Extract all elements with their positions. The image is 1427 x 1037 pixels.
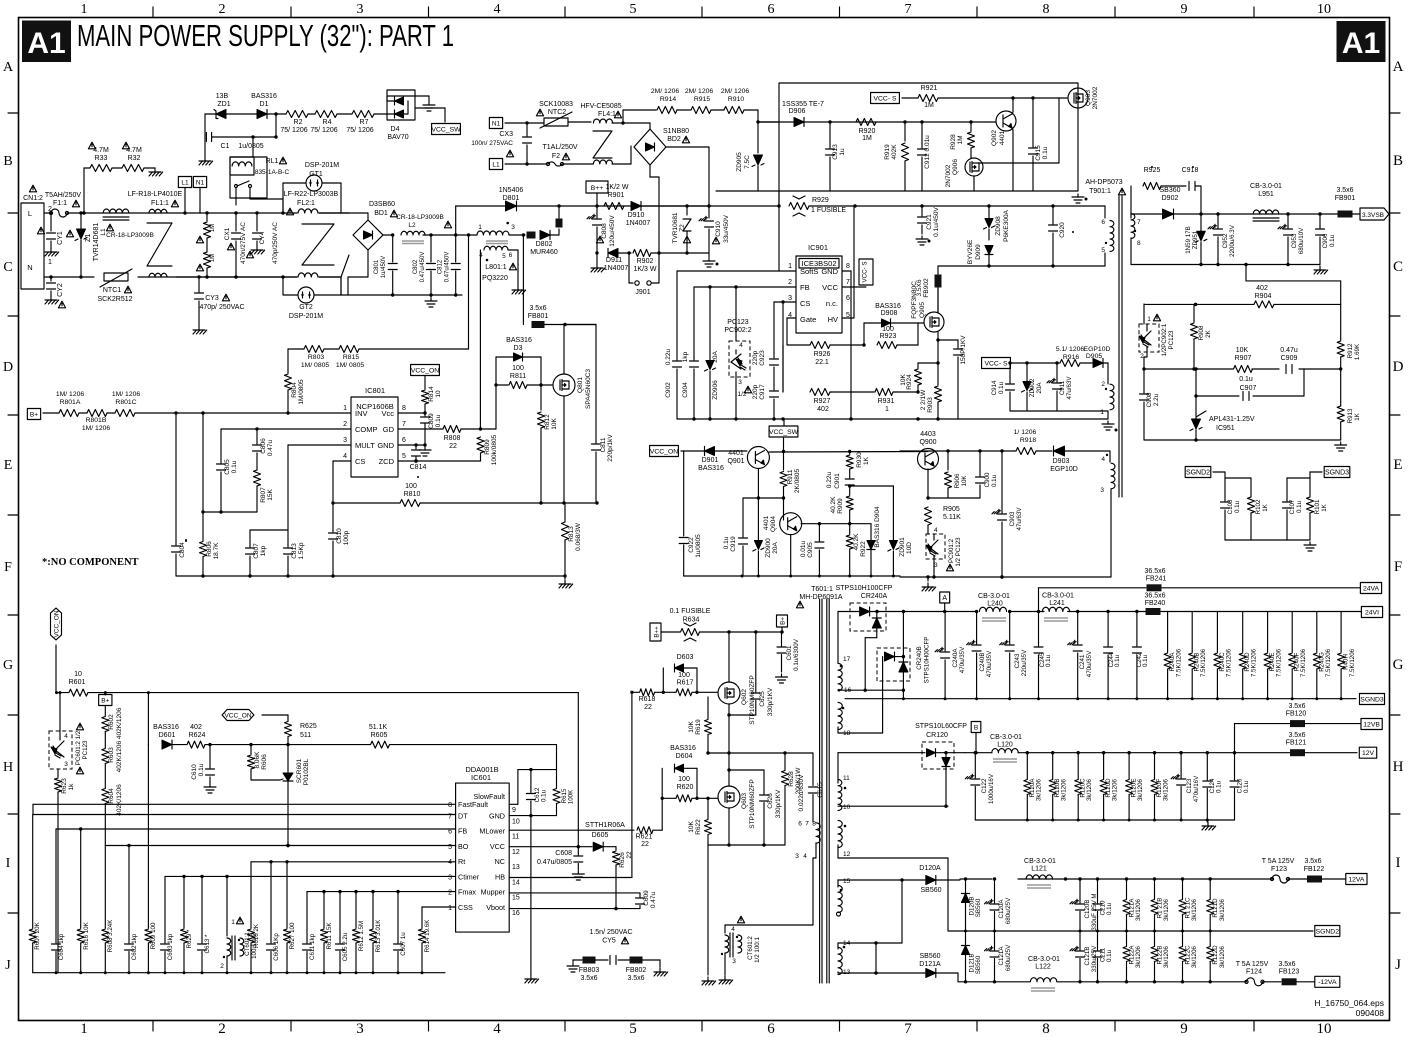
svg-text:1.69K: 1.69K — [1354, 343, 1361, 360]
svg-text:R926: R926 — [814, 351, 831, 358]
resistor R918 — [1013, 450, 1016, 452]
capacitor C906 — [1318, 212, 1321, 215]
svg-text:1M: 1M — [862, 135, 872, 142]
wire to R914 row — [622, 110, 624, 123]
svg-text:3: 3 — [357, 2, 364, 17]
hex label VCC_ON R625 — [222, 710, 254, 721]
svg-text:R910: R910 — [728, 96, 744, 103]
svg-text:2: 2 — [788, 279, 792, 286]
resistor R32 — [112, 167, 122, 169]
svg-text:SGND2: SGND2 — [1316, 928, 1340, 935]
svg-text:T 5A 125V: T 5A 125V — [1262, 858, 1295, 865]
wire FL2 to BD1 — [319, 212, 349, 214]
wire Q603 drain — [728, 753, 730, 786]
svg-text:10: 10 — [512, 819, 520, 826]
svg-text:0.068/3W: 0.068/3W — [575, 522, 582, 551]
wire T901 pin8 — [1130, 238, 1132, 265]
boxed label 12VA — [1346, 874, 1367, 885]
wire L801 zcd vertical — [479, 250, 481, 429]
svg-text:R607 20K: R607 20K — [34, 921, 41, 949]
svg-text:R613 3.01K: R613 3.01K — [375, 919, 382, 953]
wire 24VA drop — [1038, 588, 1040, 612]
wire relay to L line — [235, 188, 237, 205]
svg-text:D1: D1 — [260, 101, 269, 108]
svg-text:75/ 1206: 75/ 1206 — [310, 127, 337, 134]
boxed label -12VA — [1315, 976, 1340, 987]
resistor R926 — [787, 317, 796, 319]
svg-text:A: A — [1393, 59, 1404, 75]
boxed label B+ HB — [777, 615, 788, 627]
svg-text:C919: C919 — [730, 536, 737, 552]
resistor R911 — [783, 452, 785, 471]
svg-text:0.1u: 0.1u — [1142, 654, 1149, 667]
ferrite bead FB120 — [1290, 720, 1305, 727]
svg-text:Vcc: Vcc — [381, 409, 394, 418]
svg-text:R925: R925 — [1144, 167, 1161, 174]
svg-text:3: 3 — [343, 437, 347, 444]
svg-text:18.7K: 18.7K — [213, 542, 220, 560]
svg-text:7.5K/1206: 7.5K/1206 — [1300, 648, 1307, 677]
svg-text:STPS10H00CFP: STPS10H00CFP — [924, 637, 931, 684]
svg-text:BAS316: BAS316 — [698, 465, 724, 472]
svg-text:P6KE300A: P6KE300A — [1003, 209, 1010, 241]
svg-text:FB801: FB801 — [528, 313, 549, 320]
svg-text:Ctimer: Ctimer — [458, 872, 480, 881]
svg-text:402: 402 — [190, 724, 202, 731]
svg-text:4401: 4401 — [999, 130, 1006, 145]
svg-text:R624: R624 — [189, 732, 206, 739]
optocoupler PC601:2 — [59, 693, 61, 731]
wire Fmax row — [307, 891, 456, 893]
svg-text:5: 5 — [629, 1021, 637, 1037]
svg-text:1M: 1M — [957, 135, 964, 144]
svg-text:FB120: FB120 — [1286, 711, 1307, 718]
svg-text:C625: C625 — [759, 691, 766, 707]
svg-text:C123: C123 — [1186, 778, 1193, 793]
svg-text:7.5K/1206: 7.5K/1206 — [1225, 648, 1232, 677]
svg-text:D909: D909 — [975, 244, 982, 260]
resistor R603 — [104, 732, 106, 749]
resistor R624 — [187, 741, 205, 748]
resistor R806 — [202, 413, 204, 512]
svg-text:3.5x6: 3.5x6 — [1304, 858, 1321, 865]
resistor R807 — [254, 470, 261, 486]
svg-text:APL431-1.25V: APL431-1.25V — [1209, 416, 1255, 423]
boxed label A 24V — [940, 592, 950, 603]
svg-text:14: 14 — [512, 879, 520, 886]
svg-text:L120: L120 — [997, 742, 1013, 749]
svg-text:75/ 1206: 75/ 1206 — [346, 127, 373, 134]
capacitor C1 — [204, 114, 206, 137]
svg-text:C812: C812 — [438, 259, 444, 274]
svg-text:C903: C903 — [1009, 511, 1016, 526]
svg-text:C910: C910 — [715, 221, 722, 237]
resistor R613 — [372, 892, 374, 928]
svg-text:1k: 1k — [68, 783, 75, 791]
svg-text:R914: R914 — [660, 96, 676, 103]
svg-text:C905: C905 — [807, 542, 814, 558]
svg-text:D121A: D121A — [919, 961, 941, 968]
svg-text:4: 4 — [739, 342, 743, 349]
svg-text:SGND3: SGND3 — [1360, 696, 1384, 703]
wire snubber bottom — [938, 265, 1105, 267]
svg-text:MULT: MULT — [355, 441, 375, 450]
svg-text:1K: 1K — [863, 456, 870, 465]
svg-text:12: 12 — [843, 851, 851, 858]
capacitor C120B — [1079, 879, 1081, 903]
svg-text:VCC_ON: VCC_ON — [224, 712, 251, 719]
svg-text:EGP10D: EGP10D — [1050, 466, 1078, 473]
svg-text:BAS316: BAS316 — [670, 745, 696, 752]
resistor R903 — [935, 386, 942, 402]
svg-text:H_16750_064.eps: H_16750_064.eps — [1315, 998, 1384, 1008]
wire pin10 row — [838, 805, 948, 807]
svg-text:2200u/6.3V: 2200u/6.3V — [1229, 224, 1236, 257]
svg-text:CR240B: CR240B — [916, 646, 923, 669]
svg-text:75/ 1206: 75/ 1206 — [280, 127, 307, 134]
ferrite bead FB801 — [532, 321, 545, 328]
svg-text:8: 8 — [846, 263, 850, 270]
resistor R813 — [562, 522, 569, 540]
svg-text:7.5K/1206: 7.5K/1206 — [1349, 648, 1356, 677]
svg-text:8: 8 — [1042, 1021, 1050, 1037]
svg-text:3k/1206: 3k/1206 — [1137, 778, 1144, 801]
transformer CT601:1 — [226, 876, 228, 936]
svg-text:10: 10 — [1317, 2, 1331, 17]
bottom rail PFC — [176, 575, 565, 577]
svg-text:C: C — [3, 260, 12, 275]
wire midpoint row — [708, 752, 813, 754]
svg-text:C606 1Kp: C606 1Kp — [273, 933, 280, 961]
svg-text:Rt: Rt — [458, 857, 465, 866]
svg-text:R808: R808 — [444, 435, 461, 442]
svg-text:3k/1206: 3k/1206 — [1086, 778, 1093, 801]
svg-text:HB: HB — [495, 872, 505, 881]
resistor R904 — [1254, 301, 1274, 308]
resistor R921 — [902, 97, 918, 99]
svg-text:3.5x6: 3.5x6 — [529, 305, 546, 312]
svg-text:FB901: FB901 — [1335, 195, 1356, 202]
svg-text:Q903: Q903 — [1085, 90, 1092, 106]
svg-text:0.1u: 0.1u — [1329, 234, 1336, 247]
wire GND pin10 ground — [509, 815, 556, 817]
svg-text:N1: N1 — [492, 120, 501, 127]
resistor R902 — [618, 252, 631, 254]
svg-text:7.5K/1206: 7.5K/1206 — [1200, 648, 1207, 677]
capacitor C120A — [994, 879, 996, 903]
resistor R619 — [707, 697, 709, 719]
svg-text:3.5x6: 3.5x6 — [1278, 961, 1295, 968]
svg-text:C953: C953 — [1291, 233, 1298, 248]
svg-text:1/ 1206: 1/ 1206 — [1014, 429, 1037, 436]
diode D601 — [147, 693, 149, 745]
capacitor CY2 — [49, 275, 52, 278]
svg-text:9: 9 — [1181, 2, 1188, 17]
svg-text:1: 1 — [788, 263, 792, 270]
svg-text:GND: GND — [377, 441, 394, 450]
svg-text:0.1u: 0.1u — [231, 460, 238, 473]
svg-text:0.1u: 0.1u — [1216, 780, 1223, 793]
svg-text:F124: F124 — [1246, 969, 1262, 976]
svg-text:I: I — [1396, 855, 1401, 871]
wire 12VB line — [1234, 724, 1236, 753]
svg-text:R606: R606 — [261, 754, 268, 770]
svg-text:402K: 402K — [891, 144, 898, 160]
resistor R602 — [104, 706, 106, 717]
svg-text:D908: D908 — [881, 310, 898, 317]
wire COMP line — [221, 428, 351, 430]
wire IC901 pin1 SoftS — [778, 191, 780, 271]
svg-text:0.1u: 0.1u — [541, 789, 548, 802]
capacitor C814 — [414, 443, 417, 446]
svg-text:FQPF3N80C: FQPF3N80C — [911, 281, 918, 319]
svg-text:L240: L240 — [987, 601, 1003, 608]
svg-text:C911: C911 — [1059, 380, 1066, 395]
resistor R910 — [711, 109, 724, 111]
svg-text:A: A — [942, 595, 947, 602]
svg-text:3k/1206: 3k/1206 — [1191, 898, 1198, 921]
ferrite bead FB240 — [1146, 608, 1161, 615]
svg-text:VCC- S: VCC- S — [873, 95, 897, 102]
resistor R909 — [846, 496, 853, 510]
wire CSS row — [422, 906, 456, 908]
svg-text:0.1u: 0.1u — [1243, 780, 1250, 793]
svg-text:VCC_SW: VCC_SW — [769, 429, 799, 436]
svg-text:TVR14D681: TVR14D681 — [93, 223, 100, 262]
svg-text:RL1: RL1 — [266, 158, 279, 165]
ground CY2 — [50, 296, 52, 300]
svg-text:IC801: IC801 — [365, 386, 385, 395]
wire SGND3 row — [845, 698, 1356, 700]
svg-text:2: 2 — [448, 890, 452, 897]
snubber R925 — [1130, 186, 1132, 214]
ground PFC rail — [564, 576, 566, 579]
svg-text:C811: C811 — [600, 437, 607, 452]
svg-text:1/2: 1/2 — [737, 391, 746, 398]
svg-text:2: 2 — [220, 963, 224, 970]
ground 12V filter — [1206, 820, 1208, 822]
svg-text:0.47u: 0.47u — [267, 439, 274, 456]
wire BD2 minus — [649, 165, 651, 177]
svg-text:7: 7 — [846, 279, 850, 286]
capacitor C121A — [994, 931, 996, 950]
resistor R6 1M — [204, 252, 211, 268]
svg-text:R924: R924 — [906, 374, 913, 390]
svg-text:0.1u: 0.1u — [991, 474, 998, 487]
svg-text:R903: R903 — [927, 397, 934, 413]
wire ZD905 bottom rail — [716, 190, 779, 192]
capacitor CY3 — [197, 275, 200, 278]
ground feedback — [1340, 442, 1342, 445]
transformer T601 core — [819, 599, 821, 983]
svg-text:47u/63V: 47u/63V — [1066, 376, 1073, 400]
svg-text:CY4: CY4 — [259, 231, 266, 244]
capacitor C626 — [729, 769, 764, 771]
svg-text:1SS355 TE-7: 1SS355 TE-7 — [782, 101, 824, 108]
zener ZD908 P6KE300A — [988, 206, 990, 218]
wire T901 pin5 — [1104, 253, 1106, 266]
svg-text:C909: C909 — [1281, 355, 1298, 362]
svg-text:470u/35V: 470u/35V — [959, 646, 966, 673]
diode D605 — [593, 842, 603, 851]
diode D1 BAS316 — [226, 113, 257, 115]
svg-text:10K: 10K — [961, 475, 968, 487]
svg-text:L: L — [28, 209, 32, 218]
svg-text:C805: C805 — [224, 459, 231, 475]
svg-text:R904: R904 — [1255, 293, 1272, 300]
svg-text:C918: C918 — [1182, 167, 1199, 174]
svg-text:R617: R617 — [677, 680, 694, 687]
svg-text:3: 3 — [788, 295, 792, 302]
capacitor C606 — [270, 862, 272, 943]
svg-text:R102: R102 — [1255, 499, 1262, 514]
wire Mupper row — [509, 892, 640, 894]
svg-text:N: N — [27, 263, 32, 272]
svg-text:22: 22 — [641, 841, 649, 848]
wire pin16 row — [838, 689, 903, 691]
boxed label 12VB — [1361, 719, 1382, 730]
svg-text:0.1u: 0.1u — [1106, 902, 1113, 915]
wire Ctimer row — [165, 875, 456, 877]
wire pin14 row — [838, 942, 902, 944]
svg-text:R4: R4 — [323, 119, 332, 126]
svg-text:B+: B+ — [101, 697, 109, 704]
boxed label SGND2 — [1185, 467, 1211, 478]
svg-text:C611 1kp: C611 1kp — [309, 933, 316, 960]
svg-text:0.47u: 0.47u — [1280, 347, 1298, 354]
svg-text:G: G — [1393, 657, 1404, 673]
svg-text:R626: R626 — [619, 852, 626, 868]
wire pin12 row to SGND2 — [838, 857, 948, 859]
svg-text:3k/1206: 3k/1206 — [1163, 778, 1170, 801]
svg-text:0.1u: 0.1u — [1045, 654, 1052, 667]
svg-text:2K: 2K — [1205, 329, 1212, 337]
svg-text:R620: R620 — [677, 784, 694, 791]
svg-text:3: 3 — [732, 958, 736, 965]
resistor R120B — [1052, 753, 1054, 779]
svg-text:3k/1206: 3k/1206 — [1163, 898, 1170, 921]
svg-text:FB241: FB241 — [1146, 576, 1167, 583]
capacitor C810 — [332, 503, 334, 532]
svg-text:1: 1 — [231, 919, 235, 926]
svg-text:C917: C917 — [759, 384, 766, 400]
svg-text:VCC: VCC — [490, 842, 505, 851]
svg-text:R923: R923 — [880, 333, 897, 340]
svg-text:J901: J901 — [635, 289, 650, 296]
svg-text:D: D — [1393, 359, 1404, 375]
wire VCC line LLC — [88, 692, 578, 694]
resistor R628 — [784, 753, 786, 770]
svg-text:5: 5 — [502, 253, 506, 260]
svg-text:R809: R809 — [484, 439, 491, 455]
wire C612 R615 top row — [518, 769, 557, 771]
svg-text:C902: C902 — [665, 382, 672, 398]
svg-text:4401: 4401 — [763, 515, 770, 530]
resistor R102 — [1225, 477, 1251, 479]
svg-text:MLower: MLower — [479, 826, 505, 835]
svg-text:L801:1: L801:1 — [485, 264, 507, 271]
wire R601 drop to VCC — [577, 693, 579, 847]
svg-text:2M/ 1206: 2M/ 1206 — [685, 88, 714, 95]
wire source to ground — [707, 845, 709, 975]
wire Rt row — [251, 861, 456, 863]
svg-text:IC601: IC601 — [471, 773, 491, 782]
svg-text:22: 22 — [449, 443, 457, 450]
svg-text:CX1: CX1 — [224, 227, 231, 240]
wire CY3 node — [176, 276, 297, 278]
svg-text:LF-R18-LP4010E: LF-R18-LP4010E — [128, 191, 183, 198]
diode D903 — [1054, 446, 1065, 456]
svg-text:C120B: C120B — [1084, 900, 1091, 919]
svg-text:6: 6 — [846, 295, 850, 302]
svg-text:BAS316: BAS316 — [251, 93, 277, 100]
svg-text:680u/25V: 680u/25V — [1005, 897, 1012, 924]
svg-text:TVR10681: TVR10681 — [672, 212, 679, 243]
svg-text:NTC1: NTC1 — [103, 287, 121, 294]
hex label VCC_ON LLC — [51, 608, 62, 640]
svg-text:C813: C813 — [291, 543, 298, 559]
wire bottom rail Q900 area — [900, 576, 1111, 578]
svg-text:SB560: SB560 — [920, 887, 941, 894]
svg-text:FB902: FB902 — [923, 278, 930, 298]
ferrite bead FB803 — [583, 957, 596, 964]
svg-text:STPS10L60CFP: STPS10L60CFP — [915, 723, 967, 730]
capacitor C107 — [1286, 478, 1288, 501]
resistor R5 1M — [205, 211, 208, 214]
svg-text:T601:1: T601:1 — [811, 586, 833, 593]
svg-text:Q900: Q900 — [919, 439, 936, 446]
svg-text:FastFault: FastFault — [458, 800, 488, 809]
svg-text:470u/35V: 470u/35V — [1086, 650, 1093, 677]
wire GT2 — [282, 277, 284, 295]
svg-text:L951: L951 — [1258, 191, 1274, 198]
svg-text:CY5: CY5 — [602, 938, 616, 945]
svg-text:C603 1kp: C603 1kp — [167, 933, 174, 960]
svg-text:R608 3.24K: R608 3.24K — [107, 919, 114, 953]
svg-text:Q603: Q603 — [741, 793, 748, 809]
svg-text:SoftS: SoftS — [800, 267, 818, 276]
svg-text:6: 6 — [509, 252, 513, 259]
resistor R931 — [875, 389, 893, 396]
capacitor C240B — [976, 612, 978, 645]
svg-text:1M: 1M — [210, 224, 216, 232]
svg-text:B++: B++ — [591, 185, 604, 192]
fuse F1:1 — [44, 212, 50, 214]
feedback bottom rail — [1144, 439, 1341, 441]
svg-text:2K/0805: 2K/0805 — [794, 469, 801, 494]
svg-text:BAS316: BAS316 — [506, 337, 532, 344]
svg-text:2M/ 1206: 2M/ 1206 — [651, 88, 680, 95]
svg-text:n.c.: n.c. — [826, 299, 838, 308]
capacitor C922 — [683, 451, 685, 536]
svg-text:0.1u: 0.1u — [1114, 654, 1121, 667]
wire BD1 out — [383, 234, 393, 236]
svg-text:B: B — [1393, 153, 1403, 169]
resistor R33 — [83, 168, 85, 213]
svg-text:FB: FB — [800, 283, 810, 292]
svg-text:R920: R920 — [859, 128, 876, 135]
svg-text:12VA: 12VA — [1348, 876, 1365, 883]
resistor R924 — [915, 369, 922, 385]
svg-text:3: 3 — [448, 874, 452, 881]
svg-text:SCR601: SCR601 — [296, 758, 303, 783]
svg-text:L241: L241 — [1049, 600, 1065, 607]
capacitor C806 — [256, 429, 258, 444]
transistor Q902 4401 — [996, 111, 1016, 131]
wire FastFault row — [33, 803, 456, 805]
svg-text:R618: R618 — [639, 696, 656, 703]
svg-text:33u/450V: 33u/450V — [723, 214, 730, 242]
